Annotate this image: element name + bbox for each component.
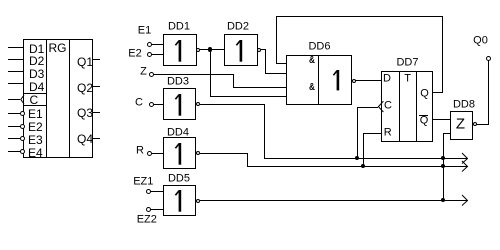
wire DD8 enable riser — [443, 133, 444, 201]
gate DD6 AND symbol upper — [309, 56, 315, 66]
wire DD7 C riser — [357, 107, 358, 159]
wire feedback riser from DD7 Q — [442, 16, 443, 93]
wire DD3 output down — [264, 104, 265, 159]
terminal label EZ1 — [133, 177, 153, 188]
wire stub to register D2 — [8, 59, 23, 60]
register pin label C — [30, 94, 39, 106]
wire junction down leg — [210, 49, 211, 97]
gate DD8 function symbol Z — [456, 117, 465, 132]
wire feedback Q top run — [276, 16, 443, 17]
gate DD4 box — [163, 137, 196, 169]
wire net R horizontal run — [247, 166, 467, 167]
gate DD4 output inversion bubble — [196, 151, 200, 155]
junction dot C net to DD7 C — [355, 156, 360, 161]
register pin label Q1 — [77, 56, 93, 68]
gate DD4 function symbol 1 — [174, 143, 184, 165]
register pin label D4 — [29, 81, 44, 93]
gate DD6 OR symbol 1 — [332, 70, 342, 91]
wire Z east — [153, 74, 234, 75]
wire net C horizontal run — [264, 158, 467, 159]
wire C to DD3 — [153, 104, 163, 105]
junction dot R net at DD8 column — [441, 164, 446, 169]
wire stub to register E1 — [8, 113, 20, 114]
register E3 inversion circle — [20, 136, 25, 141]
register RG divider 1 — [46, 39, 47, 158]
wire stub from register Q2 — [92, 86, 100, 87]
register C-section bottom border — [23, 105, 46, 106]
flip-flop DD7 designator label — [396, 57, 418, 68]
wire R to DD4 — [152, 153, 163, 154]
flip-flop DD7 function label T — [404, 73, 411, 84]
terminal label EZ2 — [137, 214, 157, 225]
gate DD2 output inversion bubble — [257, 48, 261, 52]
terminal circle R — [147, 151, 152, 156]
arrow head C net — [461, 152, 469, 164]
wire E1 to DD1 — [151, 44, 163, 45]
gate DD5 function symbol 1 — [174, 190, 184, 212]
terminal label E1 — [138, 26, 151, 37]
wire DD7 Q-bar to DD8 — [432, 119, 450, 120]
register RG outer box — [23, 39, 93, 158]
flip-flop DD7 divider 2 — [416, 71, 417, 142]
wire stub to register D4 — [8, 83, 23, 84]
wire DD2 output east — [261, 49, 266, 50]
register C dynamic-input triangle — [18, 94, 25, 105]
gate DD2 function symbol 1 — [235, 40, 245, 62]
wire stub to register E2 — [8, 126, 20, 127]
gate DD3 designator label — [167, 77, 189, 88]
gate DD5 box — [163, 185, 196, 216]
terminal label Q0 — [473, 35, 488, 46]
wire DD4 output east — [200, 153, 248, 154]
wire stub to register D3 — [8, 71, 23, 72]
wire DD1 output to junction — [200, 49, 210, 50]
gate DD2 designator label — [227, 21, 249, 32]
flip-flop DD7 pin label D — [383, 73, 391, 84]
wire net EZ horizontal run — [200, 200, 467, 201]
register E4 inversion circle — [20, 149, 25, 154]
wire feedback to DD6 input 1 — [276, 63, 287, 64]
flip-flop DD7 pin label Q — [420, 88, 429, 99]
terminal circle Z — [149, 72, 154, 77]
junction dot R net to DD7 R — [361, 164, 366, 169]
gate DD2 box — [224, 34, 258, 66]
wire stub to register E4 — [8, 151, 20, 152]
gate DD1 designator label — [168, 21, 190, 32]
register pin label D1 — [29, 43, 44, 55]
register pin label D3 — [29, 68, 44, 80]
terminal label E2 — [128, 49, 141, 60]
terminal circle C — [149, 102, 154, 107]
register pin label E3 — [28, 134, 43, 146]
wire stub to register D1 — [8, 47, 23, 48]
gate DD8 designator label — [453, 99, 475, 110]
terminal circle EZ1 — [146, 189, 151, 194]
wire R net to DD7 R input — [363, 133, 381, 134]
arrow head R net — [461, 160, 469, 172]
terminal circle E1 — [147, 42, 152, 47]
gate DD1 output inversion bubble — [196, 48, 200, 52]
terminal circle Q0 — [486, 56, 491, 61]
register pin label Q2 — [77, 82, 93, 94]
terminal circle E2 — [147, 52, 152, 57]
register E2 inversion circle — [20, 124, 25, 129]
wire EZ2 to DD5 — [150, 209, 163, 210]
wire DD7 Q output — [432, 92, 443, 93]
gate DD3 output inversion bubble — [196, 102, 200, 106]
wire feedback down to DD6 — [276, 16, 277, 64]
wire junction to DD6 input 4 — [210, 96, 287, 97]
register pin label D2 — [29, 55, 44, 67]
terminal label R — [136, 145, 144, 156]
register E1 inversion circle — [20, 111, 25, 116]
wire DD6 output to DD7 D — [355, 80, 381, 81]
register pin label E4 — [28, 147, 43, 159]
flip-flop DD7 Q-bar overline — [419, 115, 428, 116]
arrow head EZ net — [461, 194, 469, 206]
flip-flop DD7 divider 1 — [399, 71, 400, 142]
wire stub from register Q4 — [92, 138, 100, 139]
gate DD3 function symbol 1 — [174, 94, 184, 116]
gate DD6 AND symbol lower — [309, 83, 315, 93]
gate DD8 output inversion bubble — [473, 122, 477, 126]
flip-flop DD7 box — [381, 71, 433, 142]
wire DD2 output to DD6 input 2 — [265, 73, 287, 74]
wire DD7 R riser — [363, 133, 364, 167]
wire DD2 output down — [265, 49, 266, 74]
wire DD4 output down — [247, 153, 248, 167]
gate DD6 designator label — [308, 42, 330, 53]
gate DD6 output inversion bubble — [352, 79, 356, 83]
gate DD3 box — [163, 88, 196, 120]
flip-flop DD7 pin label R — [384, 128, 392, 139]
wire stub to register E3 — [8, 138, 20, 139]
gate DD1 box — [163, 34, 197, 66]
wire DD8 enable input — [443, 133, 450, 134]
register pin label E1 — [28, 108, 43, 120]
register function label RG — [49, 42, 67, 54]
wire EZ1 to DD5 — [150, 191, 163, 192]
wire DD8 output riser to Q0 — [488, 58, 489, 125]
wire Z to DD6 input 3 — [233, 87, 287, 88]
gate DD5 designator label — [168, 174, 190, 185]
flip-flop DD7 pin label Q-bar — [420, 115, 429, 126]
terminal circle EZ2 — [146, 207, 151, 212]
junction dot C net at DD8 column — [441, 156, 446, 161]
register pin label E2 — [28, 121, 43, 133]
wire C net to DD7 C input — [357, 107, 378, 108]
wire stub to register C — [8, 99, 20, 100]
register RG divider 2 — [69, 39, 70, 158]
wire Z down — [233, 74, 234, 88]
gate DD6 box — [286, 55, 352, 105]
wire DD8 output east — [476, 124, 489, 125]
register pin label Q4 — [77, 133, 93, 145]
gate DD4 designator label — [167, 127, 189, 138]
wire stub from register Q3 — [92, 112, 100, 113]
terminal label C — [135, 97, 143, 108]
junction dot DD1 output node — [208, 47, 213, 52]
gate DD8 box — [450, 111, 473, 140]
wire E2 to DD1 — [151, 54, 163, 55]
register C-section top border — [23, 93, 46, 94]
flip-flop DD7 C dynamic-input triangle — [377, 100, 385, 113]
gate DD1 function symbol 1 — [174, 40, 184, 62]
gate DD6 divider — [318, 55, 319, 105]
junction dot EZ net at DD8 column — [441, 198, 446, 203]
flip-flop DD7 pin label C — [384, 101, 392, 112]
register pin label Q3 — [77, 107, 93, 119]
wire stub from register Q1 — [92, 59, 100, 60]
wire DD3 output east — [200, 104, 265, 105]
wire junction to DD2 input — [210, 49, 224, 50]
gate DD5 output inversion bubble — [196, 199, 200, 203]
terminal label Z — [140, 67, 147, 78]
